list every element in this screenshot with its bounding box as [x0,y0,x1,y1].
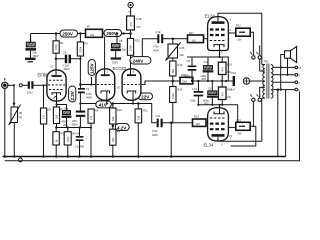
node 250V rail / R5 [79,32,82,35]
svg-text:ECC83: ECC83 [113,66,127,71]
svg-text:100k: 100k [129,45,133,51]
svg-text:470: 470 [129,22,133,27]
wire outer return line [5,92,300,161]
oval label 125V vertical [88,60,95,76]
resistor R11 [135,104,148,157]
svg-text:1W: 1W [227,95,231,99]
node cathode top EL34 [218,56,220,58]
capacitor C6 anode coupling 2.2uF [56,51,80,72]
svg-text:2.2V: 2.2V [70,91,75,100]
wire V2b grid feedback line [141,81,233,85]
node input junction [13,84,15,86]
svg-text:R9: R9 [117,130,121,134]
resistor R2 cathode [53,107,64,128]
svg-text:1k5: 1k5 [196,122,201,126]
svg-text:R22: R22 [236,24,241,28]
node 250V rail / R4 [55,32,58,35]
pentode EF86 V1 [38,65,67,102]
svg-text:C6: C6 [63,51,67,55]
wire 250V/200V supply rail [31,33,131,35]
capacitor C14 electrolytic [203,81,218,106]
svg-text:50k: 50k [180,53,185,57]
svg-text:100k: 100k [182,80,188,84]
svg-text:400V: 400V [153,49,159,53]
node rail C8 branch [122,32,125,35]
oval label 41V [96,101,112,108]
wire R22 to switch [250,32,253,55]
svg-text:82k: 82k [111,116,115,121]
ground C8 [111,57,122,64]
node R14 ground [170,155,173,158]
svg-text:470n: 470n [152,129,158,133]
terminal 16 ohm [295,66,302,70]
oval label 2.2V vertical [69,86,76,102]
capacitor C8 decoupling [111,34,127,58]
svg-text:350V: 350V [33,54,39,58]
svg-text:250V: 250V [62,32,73,37]
svg-text:4n7: 4n7 [231,88,236,92]
wire EL34 bottom anode [218,98,262,141]
svg-text:C14: C14 [208,87,213,91]
node cathode bus R11 [137,102,140,105]
svg-text:350V: 350V [72,123,78,127]
node C1 R1 junction [42,84,44,86]
node rail / R12 [129,32,132,35]
ground bus [3,156,286,158]
svg-text:47k: 47k [89,115,93,120]
svg-text:1M: 1M [19,111,23,115]
speaker LS1 [285,46,297,62]
svg-text:470n: 470n [86,92,92,96]
node C11 / bottom grid junction [170,122,173,125]
oval label 200V [104,30,122,37]
svg-text:220k: 220k [79,46,83,52]
resistor R23 grid stopper bottom [193,115,208,127]
node pot ground [13,155,16,158]
ground C5 [25,58,36,63]
svg-text:240V: 240V [133,59,144,64]
wire ECC83 anode 1 feed [104,37,106,68]
svg-text:R23: R23 [194,115,199,119]
svg-text:R5: R5 [85,42,89,46]
wire jack sleeve to ground [4,89,7,158]
svg-text:2W: 2W [238,132,242,136]
capacitor C4 [75,128,88,157]
wire secondary return [285,90,287,157]
oval label 4.2V [115,124,129,131]
chassis ground symbol [19,157,23,162]
capacitor C10 coupling top [153,30,173,53]
svg-text:400µ: 400µ [201,74,207,78]
svg-text:25V: 25V [63,123,68,127]
resistor R3b [64,128,76,157]
svg-text:R4: R4 [60,41,64,45]
wire EL34 bottom cathode [219,105,221,108]
resistor R21 screen bottom [228,119,250,136]
node grid2 bias junction [79,83,96,86]
svg-text:100k: 100k [54,44,58,50]
svg-text:8k2: 8k2 [171,68,175,73]
svg-text:125V: 125V [90,63,95,74]
triode ECC83 V2b [107,66,141,105]
resistor R7 supply dropper [86,25,103,38]
potentiometer P1 1M log [9,105,23,157]
svg-text:390: 390 [111,137,115,142]
capacitor C3 [78,85,92,104]
svg-text:1000: 1000 [66,136,70,142]
resistor R6 tail [88,109,99,157]
svg-text:C3: C3 [86,87,90,91]
svg-text:V2: V2 [117,86,121,90]
capacitor C15 feedback end [231,71,237,92]
svg-text:C12: C12 [204,60,209,64]
resistor R12 anode 2 [127,34,140,68]
wire 125V oval stub [90,77,92,86]
svg-text:2k2: 2k2 [55,114,59,119]
pentode EL34 top V4 [204,14,232,55]
resistor R19 cathode top [218,57,232,81]
svg-text:EF86: EF86 [38,73,49,78]
wire EL34 top anode [218,13,262,64]
wire anode2 takeoff to C10 [142,39,157,57]
svg-text:25µ: 25µ [64,107,69,111]
svg-text:220n: 220n [27,90,33,94]
wire speaker connections [281,55,289,76]
node NFB tap [277,88,280,91]
wire NFB return to ground bus [277,90,279,157]
svg-text:470n: 470n [153,45,159,49]
svg-text:1k5: 1k5 [192,38,197,42]
resistor R4 anode EF86 [53,34,64,71]
svg-text:R12: R12 [135,39,140,43]
svg-text:400V: 400V [86,96,92,100]
svg-text:100n: 100n [184,74,190,78]
svg-text:C8: C8 [119,39,123,43]
svg-text:C15: C15 [231,71,236,75]
node rail / C8 [116,32,119,35]
svg-text:470: 470 [221,92,225,97]
svg-text:TR1: TR1 [264,60,269,64]
resistor R22 screen top [228,24,250,42]
transformer TR1 [262,60,273,99]
resistor R1 1M [41,85,52,156]
svg-text:V1: V1 [50,65,54,69]
node R1 ground [42,155,45,158]
oval label 250V [60,30,78,37]
svg-text:log: log [19,115,23,119]
svg-text:C9: C9 [187,59,191,63]
capacitor C1 220n [29,81,33,88]
pentode EL34 bottom V3 [204,108,233,148]
svg-text:5W: 5W [137,25,141,29]
resistor R10 [110,104,123,125]
svg-text:400V: 400V [152,133,158,137]
node C4 ground [78,155,81,158]
resistor R9 [110,124,121,157]
terminal 0 ohm [295,88,300,92]
svg-text:50µ: 50µ [33,51,38,55]
wire bottom bias rail [197,104,237,122]
wire tap jumper [280,66,282,90]
node EF86 anode [55,58,58,61]
svg-text:22V: 22V [141,95,149,100]
svg-text:2W: 2W [238,38,242,42]
svg-text:R15: R15 [180,46,185,50]
node R5 junction [79,58,81,60]
node cathode bus R10 [112,102,115,105]
wire top bias rail [187,57,228,81]
input jack J1 [2,78,14,88]
node R10 R9 junction [112,125,115,128]
svg-text:100n: 100n [190,99,196,103]
wire R21 to switch [250,102,253,127]
svg-text:R16: R16 [178,63,183,67]
svg-text:2·2µ450: 2·2µ450 [75,145,85,149]
node R3 ground [67,155,70,158]
switch S3b [257,87,265,101]
svg-text:EL34: EL34 [205,14,215,19]
capacitor C12 electrolytic [201,57,214,81]
resistor R14 [170,81,183,157]
resistor R5 [77,34,88,85]
svg-text:R11: R11 [143,109,148,113]
node R6 ground [90,155,93,158]
svg-text:470: 470 [221,67,225,72]
oval label 240V [130,57,151,64]
switch S2b [257,45,265,71]
svg-text:200V: 200V [106,31,117,36]
resistor R17 grid stopper top [188,31,208,43]
svg-text:22k: 22k [90,33,95,37]
resistor R18 5W [127,8,142,34]
svg-text:40V: 40V [202,77,207,81]
wire phase splitter cathode bus [79,102,156,122]
wire suppressor return [231,126,256,146]
svg-text:100k: 100k [171,93,175,99]
svg-text:50µ: 50µ [122,48,127,52]
svg-text:1M: 1M [42,115,46,119]
svg-text:350V: 350V [112,61,118,65]
svg-text:R7: R7 [87,25,91,29]
svg-text:22k: 22k [137,115,141,120]
terminal +A supply input [128,2,133,13]
resistor R3a [53,126,64,156]
svg-text:450V: 450V [62,120,68,124]
svg-text:2.2µF: 2.2µF [63,64,70,68]
capacitor C11 coupling bottom [152,114,193,137]
capacitor C13 [190,81,203,105]
wire secondary taps [273,67,295,89]
svg-text:C11: C11 [156,114,161,118]
wire EF86 cathode bottom bus [57,126,93,128]
svg-text:R1: R1 [48,108,52,112]
node C10 / R15 junction [172,37,188,40]
svg-text:R10: R10 [117,108,122,112]
switch S2a [250,52,255,59]
terminal 4 ohm [295,81,300,85]
switch S3a [250,94,255,101]
node R11 ground [137,155,140,158]
svg-text:R19: R19 [227,63,232,67]
svg-text:100n: 100n [72,119,78,123]
svg-text:R14: R14 [178,88,183,92]
capacitor C7 feedback [72,104,86,128]
resistor R16 [170,58,183,81]
trimmer R15 [166,39,185,61]
oval label 22V [138,93,153,100]
triode ECC83 V2a [96,68,115,105]
svg-text:C13: C13 [192,87,197,91]
resistor R20 cathode bottom [218,81,232,105]
capacitor C5 supply filter [25,34,38,59]
wire EF86 cathode [55,101,66,111]
terminal B+ center tap [243,78,265,84]
svg-text:C10: C10 [156,30,161,34]
svg-text:450V: 450V [64,67,70,71]
terminal 8 ohm [295,73,300,77]
node R9 ground [112,155,115,158]
wire EL34 top cathode [219,50,221,57]
svg-text:C4: C4 [76,132,80,136]
node feedback bus R16 [172,80,175,83]
node dots feedback bus [191,80,227,82]
svg-text:R18: R18 [137,17,142,21]
wire pot feed [13,85,16,107]
capacitor C9 [184,57,196,81]
svg-text:41V: 41V [99,103,107,108]
node R3a ground [55,155,58,158]
capacitor C2 cathode bypass [62,107,72,128]
svg-text:V3: V3 [229,134,233,138]
switch contact S1 [19,84,27,87]
resistor R13 100k [180,73,193,84]
svg-text:EL34: EL34 [204,143,214,148]
svg-text:R6: R6 [95,109,99,113]
